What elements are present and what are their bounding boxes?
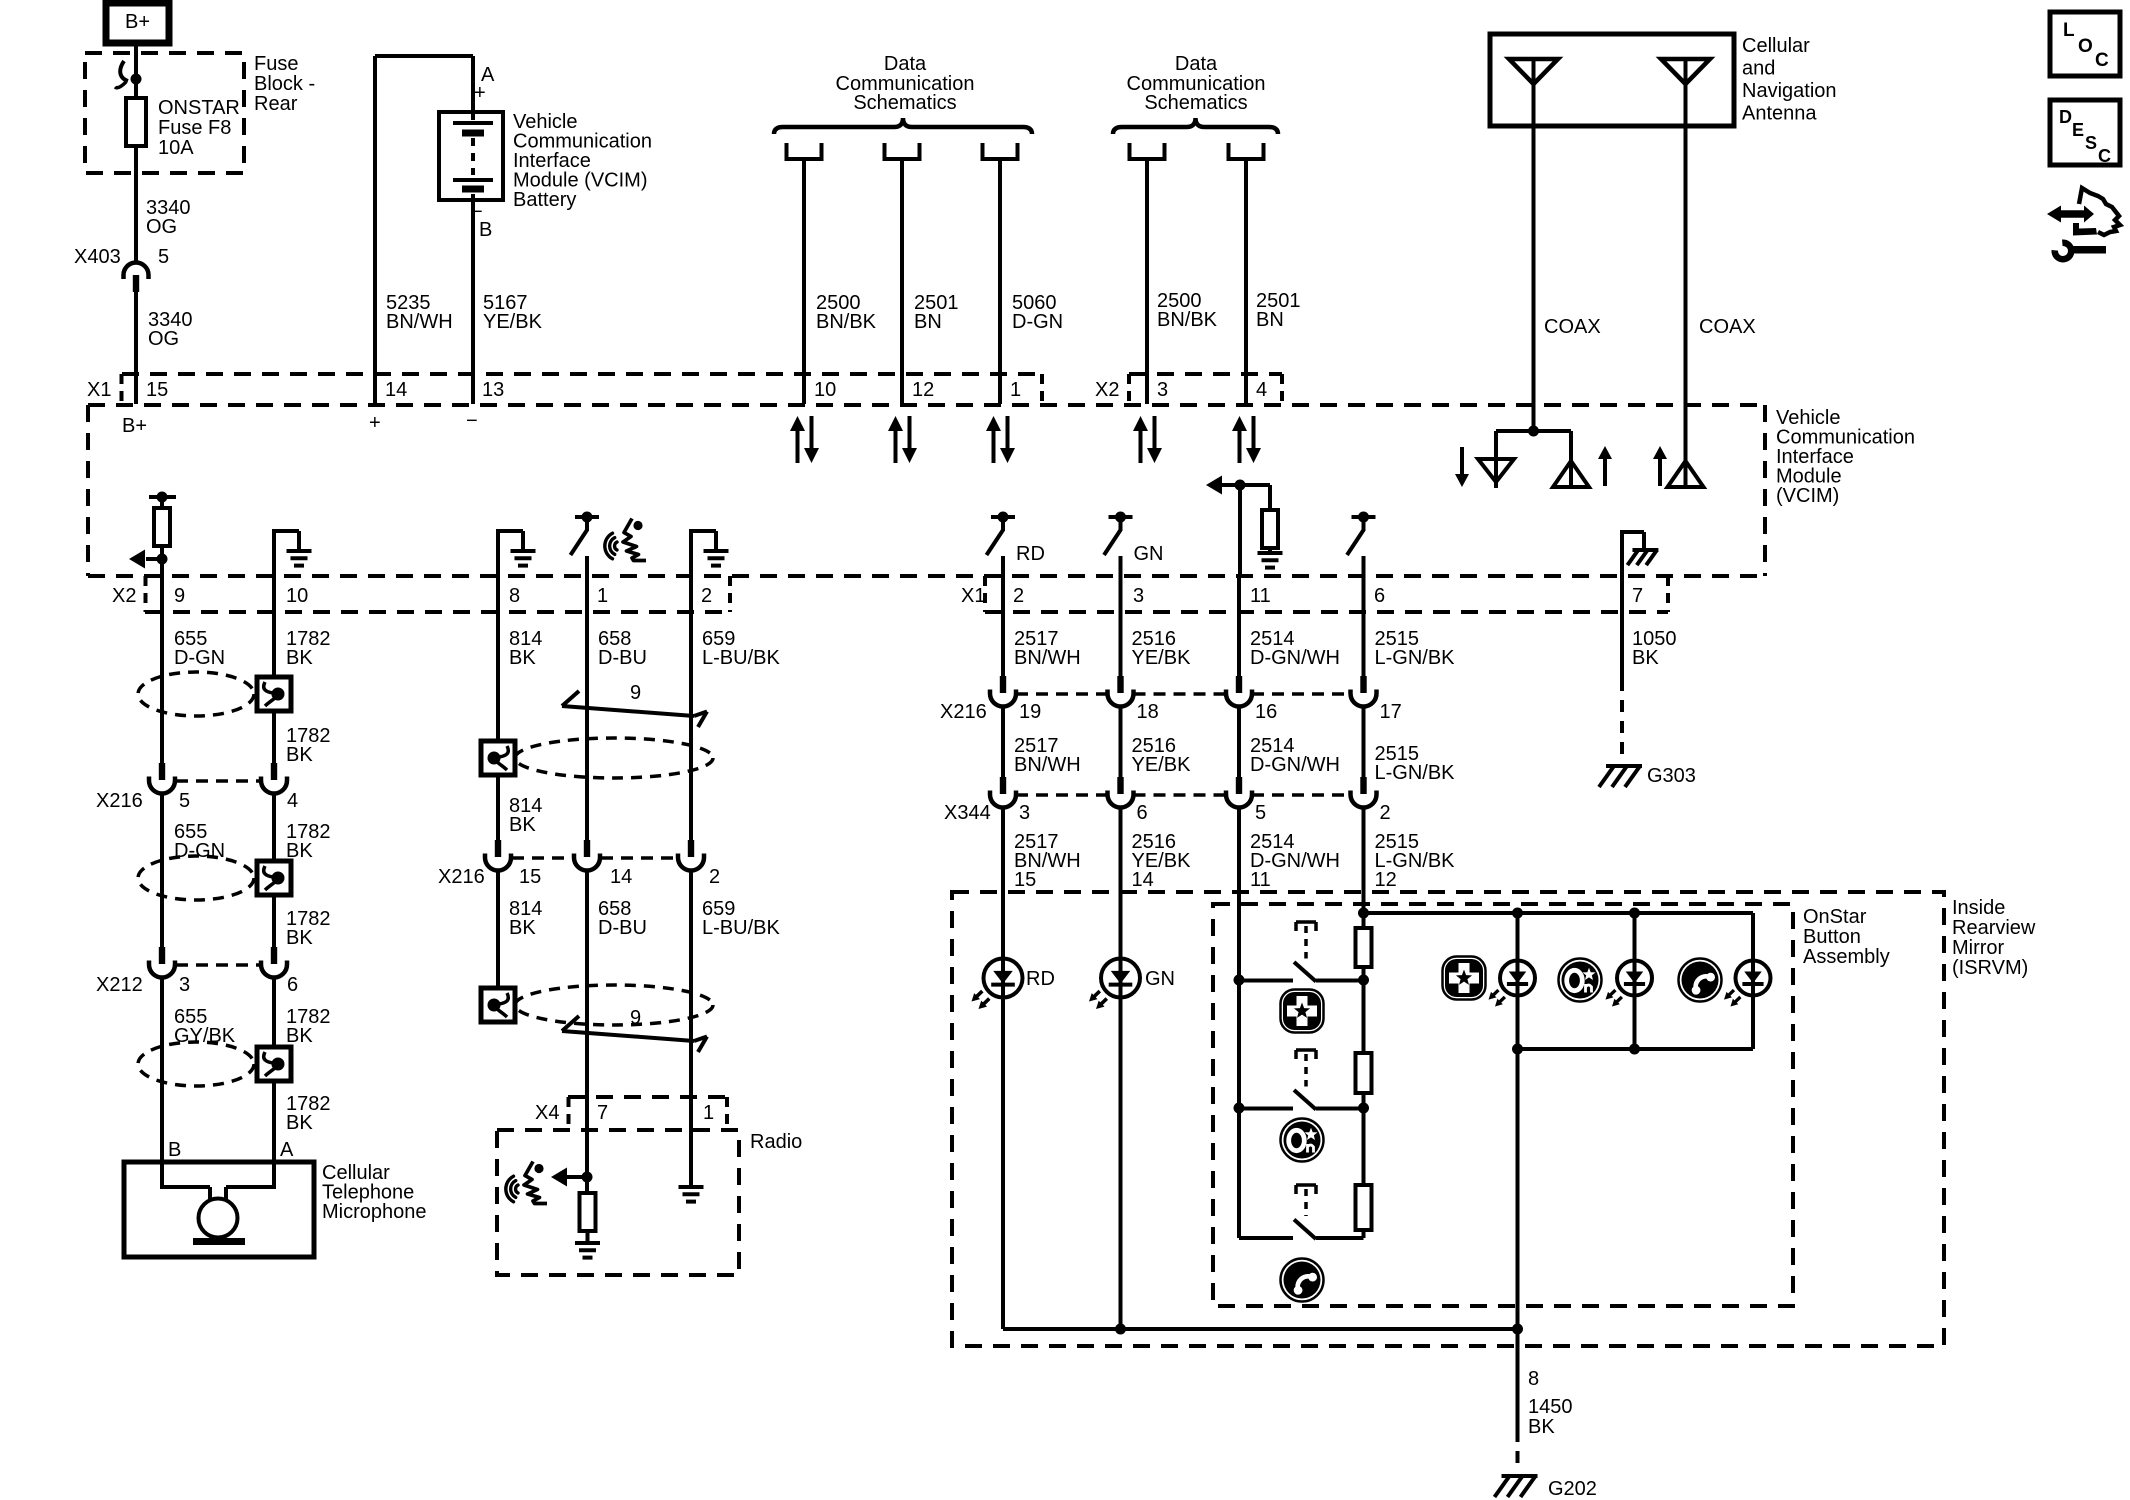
wire 5167 battery - to X1-13 bbox=[471, 194, 475, 404]
wire 1782 BK segment 2 bbox=[272, 711, 276, 763]
svg-text:3: 3 bbox=[1157, 379, 1168, 401]
tx arrow up right bbox=[1658, 457, 1662, 486]
svg-text:4: 4 bbox=[1256, 379, 1267, 401]
svg-text:BN/WH: BN/WH bbox=[1014, 647, 1081, 669]
radio mic audio icon bbox=[524, 1162, 547, 1204]
svg-text:BK: BK bbox=[1632, 647, 1659, 669]
svg-text:X2: X2 bbox=[112, 585, 136, 607]
off-page connector wire 2501 b bbox=[1227, 143, 1231, 161]
off-page connector wire 2500 bbox=[785, 143, 789, 161]
connector X216-2 bbox=[688, 840, 694, 857]
svg-text:Navigation: Navigation bbox=[1742, 80, 1837, 102]
phone button icon mid bbox=[1281, 1259, 1324, 1302]
svg-text:OG: OG bbox=[146, 216, 177, 238]
VCIM battery bbox=[439, 112, 503, 200]
brace 1 bbox=[774, 118, 1032, 134]
LOC reference box bbox=[2050, 12, 2120, 76]
svg-text:Button: Button bbox=[1803, 926, 1861, 948]
rx antenna symbol down bbox=[1494, 431, 1498, 488]
svg-text:BN/BK: BN/BK bbox=[1157, 309, 1218, 331]
connector X1 bottom strip bbox=[985, 610, 1668, 614]
svg-text:Fuse F8: Fuse F8 bbox=[158, 117, 231, 139]
svg-text:−: − bbox=[466, 410, 478, 432]
internal node arrow X2-9 bbox=[157, 554, 168, 565]
power feed B+ terminal bbox=[106, 3, 169, 43]
internal resistor to ground X1-11 bbox=[1268, 485, 1272, 510]
cellular and navigation antenna box bbox=[1490, 34, 1734, 126]
wire 2516 segment 1 bbox=[1119, 576, 1123, 676]
radio input arrow bbox=[566, 1175, 587, 1179]
LED return wire bbox=[1516, 1049, 1520, 1329]
svg-text:Inside: Inside bbox=[1952, 897, 2005, 919]
repair icon outline bbox=[2079, 188, 2120, 235]
svg-text:Schematics: Schematics bbox=[853, 92, 956, 114]
svg-text:BN: BN bbox=[914, 311, 942, 333]
svg-text:9: 9 bbox=[630, 682, 641, 704]
svg-text:+: + bbox=[369, 412, 381, 434]
off-page connector wire 2501 bbox=[883, 143, 887, 161]
svg-text:9: 9 bbox=[174, 585, 185, 607]
wire 2514 segment 1 bbox=[1237, 576, 1241, 676]
wire 655 GY-BK bbox=[160, 978, 164, 1162]
svg-text:BK: BK bbox=[509, 917, 536, 939]
wire 1782 BK segment 1 bbox=[272, 576, 276, 677]
svg-text:D-GN: D-GN bbox=[1012, 311, 1063, 333]
bidirectional arrows pin 12 bbox=[894, 429, 898, 463]
internal ground above X2-2 bbox=[689, 531, 693, 576]
svg-text:16: 16 bbox=[1255, 701, 1277, 723]
wire 1050 BK bbox=[1620, 576, 1624, 691]
LED GN bbox=[1101, 959, 1140, 998]
repair icon arrow bbox=[2047, 206, 2061, 223]
onstar button assembly box bbox=[1213, 904, 1793, 1306]
svg-text:7: 7 bbox=[597, 1102, 608, 1124]
wire 2517 segment 2 bbox=[1001, 707, 1005, 777]
svg-text:10: 10 bbox=[286, 585, 308, 607]
svg-text:18: 18 bbox=[1137, 701, 1159, 723]
switch row 3 bbox=[1239, 1236, 1293, 1240]
svg-text:Schematics: Schematics bbox=[1144, 92, 1247, 114]
connector X216-4 bbox=[271, 763, 277, 780]
svg-text:D-GN: D-GN bbox=[174, 647, 225, 669]
svg-text:Data: Data bbox=[884, 53, 927, 75]
internal resistor above X2-9 bbox=[149, 495, 176, 499]
svg-text:OG: OG bbox=[148, 328, 179, 350]
common return line bbox=[1121, 1327, 1518, 1331]
svg-text:Assembly: Assembly bbox=[1803, 946, 1890, 968]
VCIM box border bbox=[88, 403, 1765, 407]
svg-text:(VCIM): (VCIM) bbox=[1776, 485, 1839, 507]
svg-text:11: 11 bbox=[1250, 585, 1271, 607]
svg-text:3: 3 bbox=[1019, 802, 1030, 824]
wire 814 BK segment 1 bbox=[496, 576, 500, 741]
wire 659 L-BU-BK segment 2 bbox=[689, 871, 693, 1187]
svg-text:C: C bbox=[2095, 50, 2109, 71]
wire 2516 segment 2 bbox=[1119, 707, 1123, 777]
svg-text:3: 3 bbox=[1133, 585, 1144, 607]
svg-text:X344: X344 bbox=[944, 802, 991, 824]
svg-text:BK: BK bbox=[1528, 1416, 1555, 1438]
svg-text:RD: RD bbox=[1026, 968, 1055, 990]
LED block branch 3 bbox=[1751, 913, 1755, 1049]
wire 2515 segment 2 bbox=[1362, 707, 1366, 777]
wire 655 D-GN segment 2 bbox=[160, 794, 164, 947]
svg-text:COAX: COAX bbox=[1699, 316, 1756, 338]
svg-text:B+: B+ bbox=[125, 11, 150, 33]
coax wire left bbox=[1532, 126, 1536, 431]
svg-text:X216: X216 bbox=[940, 701, 987, 723]
connector X344-6 bbox=[1117, 777, 1123, 794]
wire 2515 segment 3 bbox=[1362, 808, 1366, 913]
svg-text:Rear: Rear bbox=[254, 93, 298, 115]
svg-text:BN: BN bbox=[1256, 309, 1284, 331]
cross button icon block bbox=[1443, 957, 1486, 1000]
svg-text:C: C bbox=[2098, 146, 2111, 166]
off-page connector wire 2500 b bbox=[1128, 143, 1132, 161]
wire GN to common bbox=[1119, 997, 1123, 1329]
svg-text:OnStar: OnStar bbox=[1803, 906, 1867, 928]
svg-text:12: 12 bbox=[1375, 869, 1397, 891]
wire 2515 segment 1 bbox=[1362, 576, 1366, 676]
svg-text:YE/BK: YE/BK bbox=[1132, 647, 1192, 669]
svg-text:X1: X1 bbox=[961, 585, 985, 607]
shield 2 bbox=[138, 856, 254, 900]
svg-text:BK: BK bbox=[286, 1112, 313, 1134]
svg-text:6: 6 bbox=[1137, 802, 1148, 824]
connector X1 top strip bbox=[122, 372, 1042, 376]
svg-text:2: 2 bbox=[1380, 802, 1391, 824]
svg-text:5: 5 bbox=[158, 246, 169, 268]
svg-text:13: 13 bbox=[482, 379, 504, 401]
off-page connector wire 5060 bbox=[981, 143, 985, 161]
internal hook ground above X1-7 bbox=[1620, 532, 1624, 576]
svg-text:L-GN/BK: L-GN/BK bbox=[1375, 647, 1456, 669]
svg-text:X4: X4 bbox=[535, 1102, 559, 1124]
svg-text:Block -: Block - bbox=[254, 73, 315, 95]
internal ground above X2-8 bbox=[496, 531, 500, 576]
svg-text:YE/BK: YE/BK bbox=[483, 311, 543, 333]
svg-text:Mirror: Mirror bbox=[1952, 937, 2005, 959]
onstar button icon block bbox=[1559, 959, 1602, 1002]
svg-text:D-BU: D-BU bbox=[598, 647, 647, 669]
svg-text:X2: X2 bbox=[1095, 379, 1119, 401]
repair icon jaw bar bbox=[2073, 223, 2097, 236]
wire 658 D-BU segment 2 bbox=[585, 871, 589, 1193]
shield 1 bbox=[138, 672, 254, 716]
connector X216-15 bbox=[495, 840, 501, 857]
svg-text:2: 2 bbox=[701, 585, 712, 607]
svg-text:X1: X1 bbox=[87, 379, 111, 401]
svg-text:X216: X216 bbox=[96, 790, 143, 812]
cellular telephone microphone box bbox=[124, 1162, 314, 1257]
wire 1450 BK bbox=[1516, 1329, 1520, 1430]
svg-text:E: E bbox=[2072, 120, 2084, 140]
connector X216-16 bbox=[1236, 676, 1242, 693]
LED block branch 1 bbox=[1516, 913, 1520, 1049]
svg-text:BK: BK bbox=[286, 927, 313, 949]
bidirectional arrows pin 1 bbox=[992, 429, 996, 463]
svg-text:6: 6 bbox=[1374, 585, 1385, 607]
svg-text:COAX: COAX bbox=[1544, 316, 1601, 338]
wire 2514 segment 2 bbox=[1237, 707, 1241, 777]
internal ground above X2-10 bbox=[272, 531, 276, 576]
svg-text:15: 15 bbox=[146, 379, 168, 401]
svg-text:BN/WH: BN/WH bbox=[386, 311, 453, 333]
svg-text:D: D bbox=[2059, 107, 2072, 127]
svg-text:2: 2 bbox=[709, 866, 720, 888]
shield 3 bbox=[138, 1042, 254, 1086]
LED block branch 2 bbox=[1633, 913, 1637, 1049]
svg-text:6: 6 bbox=[287, 974, 298, 996]
brace 2 bbox=[1113, 118, 1278, 134]
svg-text:17: 17 bbox=[1380, 701, 1402, 723]
svg-text:RD: RD bbox=[1016, 543, 1045, 565]
svg-text:Microphone: Microphone bbox=[322, 1201, 427, 1223]
connector X2 top strip bbox=[1129, 372, 1282, 376]
bidirectional arrows pin 3 bbox=[1139, 429, 1143, 463]
svg-text:L-GN/BK: L-GN/BK bbox=[1375, 762, 1456, 784]
tx arrow up left bbox=[1603, 457, 1607, 486]
svg-text:D-BU: D-BU bbox=[598, 917, 647, 939]
connector X216-17 bbox=[1360, 676, 1366, 693]
wire 3340 OG to X1-15 bbox=[134, 292, 138, 404]
svg-text:O: O bbox=[2078, 36, 2093, 57]
svg-text:X403: X403 bbox=[74, 246, 121, 268]
tx antenna symbol up right bbox=[1668, 461, 1704, 487]
connector X344-2 bbox=[1360, 777, 1366, 794]
coax wire right bbox=[1684, 126, 1688, 460]
connector X212-3 bbox=[159, 947, 165, 964]
svg-text:5: 5 bbox=[1255, 802, 1266, 824]
svg-text:10: 10 bbox=[814, 379, 836, 401]
radio ground 659 bbox=[679, 1185, 704, 1189]
wire 658 D-BU segment 1 bbox=[585, 576, 589, 840]
connector X216-18 bbox=[1117, 676, 1123, 693]
wire 1782 BK segment 4 bbox=[272, 895, 276, 947]
svg-text:YE/BK: YE/BK bbox=[1132, 754, 1192, 776]
svg-text:X212: X212 bbox=[96, 974, 143, 996]
svg-text:8: 8 bbox=[509, 585, 520, 607]
connector X4 strip bbox=[568, 1095, 727, 1099]
repair icon wrench bbox=[2051, 239, 2074, 262]
shield radio 1 bbox=[481, 741, 515, 775]
svg-text:+: + bbox=[474, 82, 486, 104]
ground G303 bbox=[1606, 764, 1642, 768]
svg-text:X216: X216 bbox=[438, 866, 485, 888]
fuse block rear box (dashed) bbox=[85, 53, 244, 173]
resistor R3 bbox=[1362, 1109, 1366, 1185]
LED RD bbox=[984, 959, 1023, 998]
rx arrow down bbox=[1460, 447, 1464, 476]
wire 814 BK segment 2 bbox=[496, 775, 500, 840]
svg-text:Battery: Battery bbox=[513, 189, 576, 211]
svg-text:BK: BK bbox=[286, 744, 313, 766]
svg-text:GN: GN bbox=[1145, 968, 1175, 990]
wire 2517 segment 3 bbox=[1001, 808, 1005, 959]
svg-text:BN/WH: BN/WH bbox=[1014, 754, 1081, 776]
svg-text:(ISRVM): (ISRVM) bbox=[1952, 957, 2028, 979]
connector X344-5 bbox=[1236, 777, 1242, 794]
bidirectional arrows pin 10 bbox=[796, 429, 800, 463]
svg-text:Rearview: Rearview bbox=[1952, 917, 2036, 939]
svg-text:Antenna: Antenna bbox=[1742, 103, 1817, 125]
svg-text:ONSTAR: ONSTAR bbox=[158, 97, 240, 119]
radio resistor ground bbox=[575, 1241, 600, 1245]
svg-text:GN: GN bbox=[1134, 543, 1164, 565]
wire 1782 BK segment 3 bbox=[272, 794, 276, 861]
LED block bottom line bbox=[1518, 1047, 1754, 1051]
wire 2514 segment 3 bbox=[1237, 808, 1241, 980]
svg-text:BK: BK bbox=[509, 814, 536, 836]
switch row 2 bbox=[1234, 1103, 1245, 1114]
resistor R2 bbox=[1362, 981, 1366, 1053]
svg-text:BN/BK: BN/BK bbox=[816, 311, 877, 333]
antenna element 2 bbox=[1661, 59, 1710, 84]
wire RD to common bbox=[1001, 997, 1005, 1329]
svg-text:D-GN/WH: D-GN/WH bbox=[1250, 754, 1340, 776]
svg-text:A: A bbox=[280, 1139, 294, 1161]
internal switch above X2-1 bbox=[575, 515, 599, 519]
wire 659 L-BU-BK segment 1 bbox=[689, 576, 693, 840]
resistor R1 bbox=[1362, 913, 1366, 928]
svg-text:L: L bbox=[2063, 20, 2075, 41]
switch row 1 bbox=[1234, 975, 1245, 986]
connector X2 bottom strip bbox=[145, 610, 730, 614]
svg-text:15: 15 bbox=[519, 866, 541, 888]
wire 5235 to battery + bbox=[373, 56, 377, 405]
svg-text:Cellular: Cellular bbox=[1742, 35, 1810, 57]
svg-text:9: 9 bbox=[630, 1007, 641, 1029]
svg-text:14: 14 bbox=[385, 379, 407, 401]
connector X216-14 bbox=[584, 840, 590, 857]
phone button icon block bbox=[1679, 959, 1722, 1002]
wire 655 D-GN segment 1 bbox=[160, 576, 164, 763]
wire 1782 BK segment 6 bbox=[272, 1081, 276, 1162]
wire 2516 segment 3 bbox=[1119, 808, 1123, 959]
svg-text:L-BU/BK: L-BU/BK bbox=[702, 917, 780, 939]
svg-text:and: and bbox=[1742, 58, 1775, 80]
svg-text:8: 8 bbox=[1528, 1368, 1539, 1390]
svg-text:1: 1 bbox=[597, 585, 608, 607]
svg-text:1: 1 bbox=[703, 1102, 714, 1124]
wire 814 BK segment 3 bbox=[496, 871, 500, 988]
svg-text:14: 14 bbox=[610, 866, 632, 888]
twisted pair marker 9 lower bbox=[562, 1031, 694, 1041]
svg-text:BK: BK bbox=[286, 647, 313, 669]
svg-text:10A: 10A bbox=[158, 137, 194, 159]
svg-text:BK: BK bbox=[509, 647, 536, 669]
svg-text:Data: Data bbox=[1175, 53, 1218, 75]
antenna matching node bbox=[1528, 426, 1539, 437]
fuse clip hook bbox=[120, 61, 128, 81]
connector X212-6 bbox=[271, 947, 277, 964]
onstar button icon mid bbox=[1281, 1119, 1324, 1162]
internal switch above X1-3 GN bbox=[1109, 515, 1133, 519]
svg-text:5: 5 bbox=[179, 790, 190, 812]
svg-text:1: 1 bbox=[1010, 379, 1021, 401]
LED feed line bbox=[1364, 911, 1754, 915]
fuse F8 10A bbox=[134, 79, 138, 98]
internal node above X1-11 bbox=[1235, 480, 1246, 491]
microphone element bbox=[160, 1162, 164, 1189]
connector X344-3 bbox=[1000, 777, 1006, 794]
svg-text:3: 3 bbox=[179, 974, 190, 996]
antenna element 1 bbox=[1509, 59, 1558, 84]
svg-text:B: B bbox=[168, 1139, 181, 1161]
wire 1782 BK segment 5 bbox=[272, 978, 276, 1047]
microphone audio icon VCIM bbox=[623, 519, 646, 561]
shield radio 2 bbox=[481, 988, 515, 1022]
DESC reference box bbox=[2050, 100, 2120, 165]
svg-text:B+: B+ bbox=[122, 415, 147, 437]
svg-text:S: S bbox=[2085, 133, 2097, 153]
svg-text:Fuse: Fuse bbox=[254, 53, 298, 75]
svg-text:G202: G202 bbox=[1548, 1478, 1597, 1500]
svg-text:19: 19 bbox=[1019, 701, 1041, 723]
node 2515 top bbox=[1358, 908, 1369, 919]
inside rearview mirror box bbox=[952, 892, 1944, 1346]
svg-text:1450: 1450 bbox=[1528, 1396, 1573, 1418]
svg-text:B: B bbox=[479, 219, 492, 241]
internal switch above X1-2 RD bbox=[991, 515, 1015, 519]
svg-text:4: 4 bbox=[287, 790, 298, 812]
twisted pair marker 9 upper bbox=[562, 706, 694, 716]
internal switch above X1-6 bbox=[1352, 515, 1376, 519]
wire B+ to fuse bbox=[134, 43, 138, 79]
svg-text:11: 11 bbox=[1250, 869, 1271, 891]
bidirectional arrows pin 4 bbox=[1238, 429, 1242, 463]
wire 2517 segment 1 bbox=[1001, 576, 1005, 676]
svg-text:L-BU/BK: L-BU/BK bbox=[702, 647, 780, 669]
svg-text:D-GN/WH: D-GN/WH bbox=[1250, 647, 1340, 669]
tx antenna symbol up left bbox=[1569, 431, 1573, 461]
svg-text:BK: BK bbox=[286, 1025, 313, 1047]
svg-text:7: 7 bbox=[1632, 585, 1643, 607]
ground G202 bbox=[1502, 1474, 1538, 1478]
svg-text:2: 2 bbox=[1013, 585, 1024, 607]
radio box bbox=[497, 1130, 739, 1275]
svg-text:14: 14 bbox=[1132, 869, 1154, 891]
connector X216-5 bbox=[159, 763, 165, 780]
svg-text:Radio: Radio bbox=[750, 1131, 802, 1153]
cross button icon mid bbox=[1281, 990, 1324, 1033]
svg-text:12: 12 bbox=[912, 379, 934, 401]
svg-text:G303: G303 bbox=[1647, 765, 1696, 787]
svg-text:15: 15 bbox=[1014, 869, 1036, 891]
connector X216-19 bbox=[1000, 676, 1006, 693]
radio bias resistor bbox=[580, 1193, 596, 1231]
